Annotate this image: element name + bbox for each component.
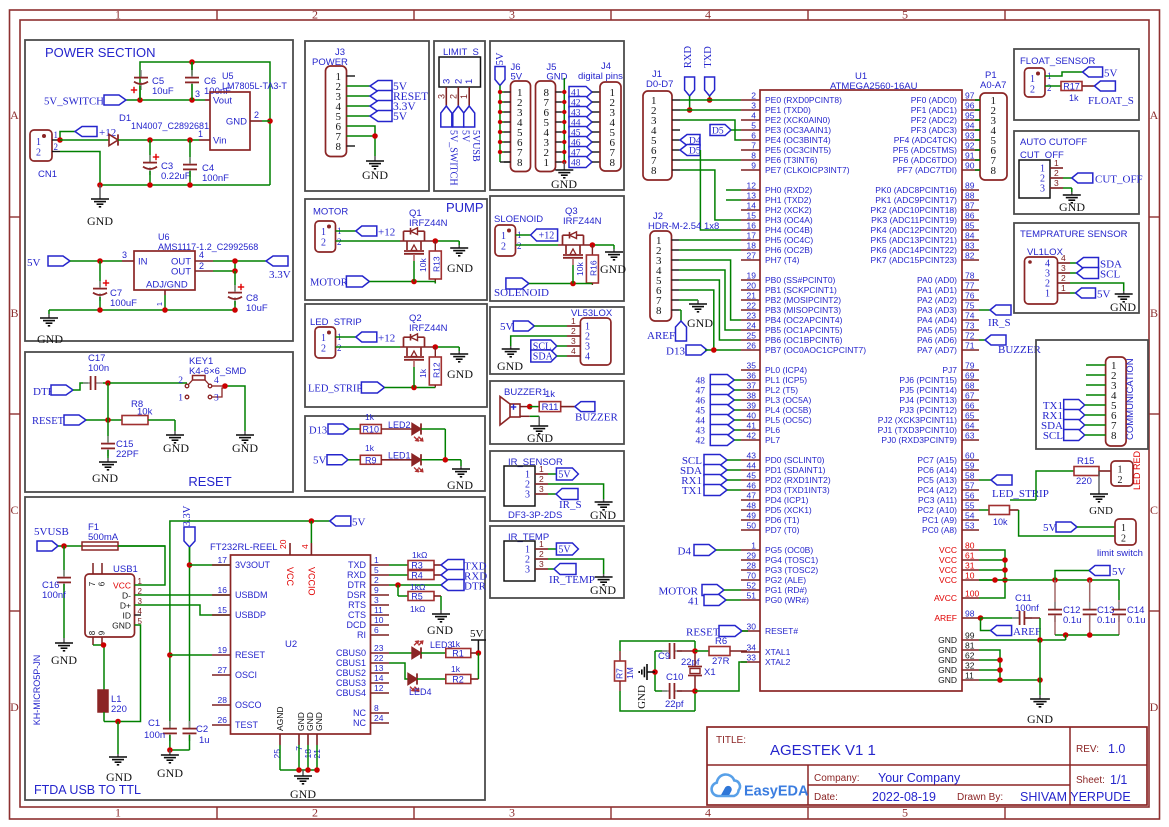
svg-text:C: C bbox=[10, 503, 18, 517]
svg-text:63: 63 bbox=[965, 431, 975, 441]
svg-text:4: 4 bbox=[585, 352, 590, 363]
svg-text:58: 58 bbox=[965, 471, 975, 481]
capacitor C15 22PF bbox=[101, 420, 139, 460]
svg-text:2: 2 bbox=[199, 261, 204, 271]
svg-text:22: 22 bbox=[374, 653, 384, 663]
svg-text:GND: GND bbox=[362, 168, 388, 182]
svg-text:GND: GND bbox=[1059, 200, 1085, 214]
node +12 flag bbox=[57, 127, 116, 143]
svg-text:Company:: Company: bbox=[814, 773, 860, 784]
svg-text:PH6 (OC2B): PH6 (OC2B) bbox=[765, 245, 813, 255]
svg-text:PJ1 (TXD3PCINT10): PJ1 (TXD3PCINT10) bbox=[878, 425, 958, 435]
svg-text:2: 2 bbox=[321, 238, 326, 249]
svg-text:24: 24 bbox=[374, 713, 384, 723]
svg-text:1: 1 bbox=[178, 394, 183, 404]
speaker BUZZER1 bbox=[500, 387, 555, 425]
svg-text:LED_STRIP: LED_STRIP bbox=[992, 488, 1049, 500]
node +12 flag PUMP bbox=[336, 226, 396, 239]
node D13 flag PB7 bbox=[666, 345, 741, 358]
svg-text:3: 3 bbox=[539, 484, 544, 494]
svg-text:GND: GND bbox=[938, 655, 957, 665]
svg-text:34: 34 bbox=[747, 643, 757, 653]
svg-text:PD1 (SDAINT1): PD1 (SDAINT1) bbox=[765, 465, 826, 475]
svg-text:PE2 (XCK0AIN0): PE2 (XCK0AIN0) bbox=[765, 115, 830, 125]
svg-text:48: 48 bbox=[696, 377, 706, 387]
ic U1 ATMEGA2560-16AU bbox=[741, 71, 979, 691]
section box BUZZER bbox=[490, 381, 624, 444]
svg-text:47: 47 bbox=[747, 491, 757, 501]
connector J2 HDR-M-2.54 1x8 bbox=[648, 211, 719, 321]
svg-text:1u: 1u bbox=[199, 735, 210, 746]
svg-text:NC: NC bbox=[353, 718, 366, 728]
wire VL53LOX pin2 ground bbox=[511, 336, 567, 346]
svg-text:PL4 (OC5B): PL4 (OC5B) bbox=[765, 405, 811, 415]
svg-text:1k: 1k bbox=[365, 443, 375, 453]
svg-text:28: 28 bbox=[747, 561, 757, 571]
svg-text:AREF: AREF bbox=[934, 613, 957, 623]
svg-text:69: 69 bbox=[965, 371, 975, 381]
svg-text:52: 52 bbox=[747, 581, 757, 591]
wire PH1 stub bbox=[726, 199, 741, 201]
svg-text:IRFZ44N: IRFZ44N bbox=[563, 216, 602, 227]
svg-text:GND: GND bbox=[290, 787, 316, 801]
svg-text:75: 75 bbox=[965, 301, 975, 311]
svg-text:POWER SECTION: POWER SECTION bbox=[45, 45, 156, 60]
svg-text:EasyEDA: EasyEDA bbox=[744, 784, 809, 800]
svg-text:SLOENOID: SLOENOID bbox=[494, 214, 543, 225]
svg-text:PA3 (AD3): PA3 (AD3) bbox=[917, 305, 957, 315]
svg-text:26: 26 bbox=[747, 341, 757, 351]
svg-text:55: 55 bbox=[965, 501, 975, 511]
node MOTOR flag PG1 bbox=[658, 585, 741, 598]
svg-text:ID: ID bbox=[123, 611, 132, 621]
ground GND R8 bbox=[163, 431, 189, 455]
svg-text:FTDA USB TO TTL: FTDA USB TO TTL bbox=[34, 783, 141, 797]
svg-text:PH2 (XCK2): PH2 (XCK2) bbox=[765, 205, 812, 215]
resistor 10k PC2 bbox=[979, 506, 1115, 537]
svg-text:1: 1 bbox=[464, 79, 475, 84]
svg-text:R17: R17 bbox=[1063, 82, 1080, 92]
svg-text:1k: 1k bbox=[451, 664, 461, 674]
svg-text:1k: 1k bbox=[418, 368, 428, 378]
node TX1 RX1 SDA SCL flags comm bbox=[1041, 400, 1106, 443]
svg-text:CTS: CTS bbox=[348, 610, 366, 620]
svg-text:R10: R10 bbox=[363, 425, 380, 435]
wire J2 pin3 to PB4 bbox=[679, 260, 741, 320]
node DTR flag bbox=[33, 383, 88, 398]
svg-text:86: 86 bbox=[965, 211, 975, 221]
svg-text:44: 44 bbox=[696, 417, 706, 427]
svg-text:14: 14 bbox=[374, 673, 384, 683]
svg-text:23: 23 bbox=[374, 643, 384, 653]
svg-text:PH0 (RXD2): PH0 (RXD2) bbox=[765, 185, 812, 195]
svg-text:PC0 (A8): PC0 (A8) bbox=[922, 525, 957, 535]
svg-text:5V: 5V bbox=[495, 52, 506, 65]
svg-text:4: 4 bbox=[571, 346, 576, 356]
svg-text:95: 95 bbox=[965, 111, 975, 121]
svg-text:IRFZ44N: IRFZ44N bbox=[409, 323, 448, 334]
svg-text:2: 2 bbox=[321, 344, 326, 355]
svg-text:GND: GND bbox=[447, 367, 473, 381]
node D5 flag J1 pin6 bbox=[680, 145, 701, 157]
svg-text:7: 7 bbox=[88, 581, 97, 586]
svg-text:4: 4 bbox=[199, 250, 204, 260]
svg-text:91: 91 bbox=[965, 151, 975, 161]
node 41 flag PG0 bbox=[688, 595, 741, 608]
wire DTR net bbox=[389, 582, 441, 596]
svg-text:5V: 5V bbox=[1097, 289, 1111, 301]
svg-text:47: 47 bbox=[696, 387, 706, 397]
svg-text:2: 2 bbox=[337, 237, 342, 247]
svg-text:PE4 (OC3BINT4): PE4 (OC3BINT4) bbox=[765, 135, 831, 145]
svg-text:0.1u: 0.1u bbox=[1097, 615, 1116, 626]
node 5VUSB flag bbox=[34, 526, 82, 551]
svg-text:1k: 1k bbox=[365, 412, 375, 422]
svg-text:U5: U5 bbox=[222, 71, 234, 81]
svg-text:B: B bbox=[10, 306, 18, 320]
svg-text:57: 57 bbox=[965, 481, 975, 491]
svg-text:0.22uF: 0.22uF bbox=[161, 171, 191, 182]
node CUT_OFF flag bbox=[1063, 173, 1143, 186]
svg-text:220: 220 bbox=[111, 704, 127, 715]
crystal X1 bbox=[688, 641, 716, 711]
svg-text:OSCI: OSCI bbox=[235, 670, 257, 680]
capacitor C9 22pf bbox=[655, 643, 700, 668]
svg-text:Your Company: Your Company bbox=[878, 771, 961, 785]
svg-text:PB6 (OC1BPCINT6): PB6 (OC1BPCINT6) bbox=[765, 335, 843, 345]
svg-text:X1: X1 bbox=[704, 667, 716, 678]
svg-text:PD0 (SCLINT0): PD0 (SCLINT0) bbox=[765, 455, 825, 465]
svg-text:4: 4 bbox=[300, 544, 310, 549]
node AREF flag bbox=[991, 626, 1042, 639]
svg-text:BUZZER: BUZZER bbox=[575, 412, 618, 424]
svg-text:PF2 (ADC2): PF2 (ADC2) bbox=[911, 115, 957, 125]
section box IR_TEMP bbox=[490, 526, 624, 598]
wire IR_SENSOR pin2 ground bbox=[548, 484, 604, 499]
switch KEY1 K4-6x6_SMD bbox=[110, 356, 246, 431]
svg-text:46: 46 bbox=[696, 397, 706, 407]
svg-text:8: 8 bbox=[751, 151, 756, 161]
svg-text:D0-D7: D0-D7 bbox=[646, 79, 673, 90]
svg-text:PC1 (A9): PC1 (A9) bbox=[922, 515, 957, 525]
svg-text:KH-MICRO5P-JN: KH-MICRO5P-JN bbox=[32, 655, 42, 726]
wire USB VCC to fuse bbox=[118, 546, 165, 585]
svg-text:5V: 5V bbox=[393, 111, 408, 123]
resistor R13 10k bbox=[418, 241, 442, 284]
wire USB D+ to U2 USBDP bbox=[135, 605, 231, 615]
capacitor C1 100n bbox=[144, 718, 177, 750]
svg-text:TEMPRATURE SENSOR: TEMPRATURE SENSOR bbox=[1020, 229, 1128, 240]
capacitor C13 0.1u bbox=[1083, 580, 1116, 635]
svg-text:GND: GND bbox=[226, 117, 247, 128]
svg-text:PC5 (A13): PC5 (A13) bbox=[917, 475, 957, 485]
svg-text:LED1: LED1 bbox=[388, 451, 411, 461]
svg-text:IN: IN bbox=[138, 257, 148, 268]
svg-text:54: 54 bbox=[965, 511, 975, 521]
svg-text:3: 3 bbox=[751, 101, 756, 111]
svg-text:28: 28 bbox=[218, 695, 228, 705]
svg-text:3: 3 bbox=[122, 250, 127, 260]
svg-text:GND: GND bbox=[51, 653, 77, 667]
svg-text:GND: GND bbox=[232, 441, 258, 455]
svg-text:CBUS2: CBUS2 bbox=[336, 668, 366, 678]
svg-text:1: 1 bbox=[751, 541, 756, 551]
svg-text:5: 5 bbox=[374, 565, 379, 575]
svg-text:PE5 (OC3CINT5): PE5 (OC3CINT5) bbox=[765, 145, 831, 155]
section box TEMPRATURE SENSOR bbox=[1014, 223, 1139, 313]
wire U6 out to 3.3V bbox=[195, 258, 266, 274]
svg-text:48: 48 bbox=[747, 501, 757, 511]
svg-text:2: 2 bbox=[571, 326, 576, 336]
svg-text:PB1 (SCKPCINT1): PB1 (SCKPCINT1) bbox=[765, 285, 837, 295]
svg-text:5V: 5V bbox=[352, 517, 366, 529]
ground GND R15 bbox=[1089, 490, 1113, 517]
ground GND C1 C2 bbox=[157, 750, 183, 780]
svg-text:12: 12 bbox=[374, 683, 384, 693]
svg-text:PF6 (ADC6TDO): PF6 (ADC6TDO) bbox=[893, 155, 957, 165]
connector IR temp bbox=[504, 539, 548, 581]
wire IR_TEMP pin2 ground bbox=[548, 559, 604, 574]
svg-text:2: 2 bbox=[1054, 168, 1059, 178]
svg-text:100nF: 100nF bbox=[202, 173, 229, 184]
wire J3 pins to flags bbox=[347, 86, 371, 116]
wire J1 pin1 PE0 bbox=[680, 99, 741, 101]
svg-text:100n: 100n bbox=[88, 363, 109, 374]
resistor R11 1k bbox=[539, 402, 575, 414]
svg-text:GND: GND bbox=[106, 770, 132, 784]
svg-text:8: 8 bbox=[374, 703, 379, 713]
svg-text:SDA: SDA bbox=[533, 352, 554, 363]
svg-text:1: 1 bbox=[155, 302, 164, 306]
connector float sensor bbox=[1025, 68, 1052, 97]
node IR_S flag PA3 bbox=[979, 305, 1011, 329]
svg-text:Drawn By:: Drawn By: bbox=[957, 792, 1003, 803]
svg-text:CBUS0: CBUS0 bbox=[336, 648, 366, 658]
svg-text:3: 3 bbox=[539, 559, 544, 569]
svg-text:PJ2 (XCK3PCINT11): PJ2 (XCK3PCINT11) bbox=[878, 415, 957, 425]
svg-text:ATMEGA2560-16AU: ATMEGA2560-16AU bbox=[830, 81, 918, 92]
svg-text:BUZZER: BUZZER bbox=[998, 344, 1041, 356]
capacitor C10 22pf bbox=[655, 672, 695, 710]
ground GND J5 bbox=[551, 162, 577, 191]
svg-text:DF3-3P-2DS: DF3-3P-2DS bbox=[508, 510, 562, 521]
svg-text:TITLE:: TITLE: bbox=[716, 735, 746, 746]
node SCL flag PD0 bbox=[682, 455, 741, 468]
svg-text:61: 61 bbox=[965, 551, 975, 561]
ground GND LEDs bbox=[447, 466, 473, 492]
svg-text:C1: C1 bbox=[148, 718, 160, 729]
ic U2 FT232RL-REEL bbox=[210, 539, 389, 758]
svg-text:10uF: 10uF bbox=[152, 86, 174, 97]
node TX1 flag PD3 bbox=[682, 485, 741, 498]
svg-text:33: 33 bbox=[747, 653, 757, 663]
wire U2 ground pins bbox=[280, 745, 320, 773]
svg-text:3: 3 bbox=[1040, 184, 1045, 195]
svg-text:PL1 (ICP5): PL1 (ICP5) bbox=[765, 375, 807, 385]
svg-text:PJ4 (PCINT13): PJ4 (PCINT13) bbox=[899, 395, 957, 405]
svg-text:78: 78 bbox=[965, 271, 975, 281]
wire J2 pin2 PH6 bbox=[679, 249, 741, 251]
svg-text:100nf: 100nf bbox=[1015, 603, 1039, 614]
svg-text:GND: GND bbox=[600, 262, 626, 276]
svg-text:NC: NC bbox=[353, 708, 366, 718]
svg-text:VCC: VCC bbox=[939, 575, 957, 585]
svg-text:RTS: RTS bbox=[348, 600, 366, 610]
svg-text:89: 89 bbox=[965, 181, 975, 191]
svg-text:11: 11 bbox=[374, 605, 383, 615]
svg-text:PF4 (ADC4TCK): PF4 (ADC4TCK) bbox=[894, 135, 957, 145]
svg-text:8: 8 bbox=[610, 157, 616, 169]
svg-text:97: 97 bbox=[965, 91, 975, 101]
svg-text:D1: D1 bbox=[119, 113, 131, 124]
svg-text:PE0 (RXD0PCINT8): PE0 (RXD0PCINT8) bbox=[765, 95, 842, 105]
svg-text:7: 7 bbox=[751, 141, 756, 151]
svg-text:PC3 (A11): PC3 (A11) bbox=[918, 495, 957, 505]
svg-text:RXD: RXD bbox=[683, 45, 694, 68]
svg-text:5: 5 bbox=[902, 806, 908, 820]
svg-text:6: 6 bbox=[374, 625, 379, 635]
svg-text:5V: 5V bbox=[1043, 522, 1057, 534]
section box LIMIT_S bbox=[434, 41, 485, 191]
wire J1 pin7 PE6 bbox=[680, 159, 741, 161]
svg-text:R6: R6 bbox=[715, 636, 727, 647]
svg-text:PL5 (OC5C): PL5 (OC5C) bbox=[765, 415, 812, 425]
svg-text:99: 99 bbox=[965, 631, 975, 641]
ground GND U2 bbox=[290, 770, 316, 801]
node SCL flag temp bbox=[1070, 268, 1120, 281]
svg-text:70: 70 bbox=[747, 571, 757, 581]
svg-text:94: 94 bbox=[965, 121, 975, 131]
node RESET flag bbox=[32, 415, 122, 427]
svg-text:43: 43 bbox=[747, 451, 757, 461]
node flags 5V_SWITCH 5V 5VUSB bbox=[441, 106, 481, 186]
wire 5V rail over U2 bbox=[167, 518, 330, 728]
svg-text:79: 79 bbox=[965, 361, 975, 371]
svg-text:1: 1 bbox=[459, 94, 469, 99]
svg-text:PA5 (AD5): PA5 (AD5) bbox=[917, 325, 957, 335]
svg-text:PD7 (T0): PD7 (T0) bbox=[765, 525, 800, 535]
svg-text:GND: GND bbox=[37, 332, 63, 346]
node 5V power stub LED bbox=[470, 628, 486, 656]
wire VCCIO drop bbox=[310, 521, 312, 543]
node MOTOR flag bbox=[310, 261, 435, 289]
svg-text:1: 1 bbox=[1045, 289, 1050, 300]
svg-text:3: 3 bbox=[509, 8, 515, 22]
connector J3 bbox=[326, 66, 356, 157]
capacitor C12 0.1u bbox=[1048, 580, 1082, 635]
led LED3 bbox=[389, 640, 453, 659]
svg-text:GND: GND bbox=[1089, 505, 1113, 517]
svg-text:+12: +12 bbox=[539, 231, 555, 242]
svg-text:12: 12 bbox=[747, 181, 757, 191]
svg-text:10: 10 bbox=[965, 571, 975, 581]
svg-text:PC6 (A14): PC6 (A14) bbox=[917, 465, 957, 475]
svg-text:100n: 100n bbox=[144, 730, 165, 741]
svg-text:LM7805L-TA3-T: LM7805L-TA3-T bbox=[222, 81, 287, 91]
svg-text:PK4 (ADC12PCINT20): PK4 (ADC12PCINT20) bbox=[871, 225, 958, 235]
resistor R7 1M bbox=[615, 641, 696, 711]
node 5V_SWITCH flag bbox=[44, 95, 126, 108]
svg-text:PH4 (OC4B): PH4 (OC4B) bbox=[765, 225, 813, 235]
svg-text:2: 2 bbox=[312, 8, 318, 22]
svg-text:RESET#: RESET# bbox=[765, 626, 798, 636]
svg-text:21: 21 bbox=[747, 291, 757, 301]
wire J2 pin5 to PB6 bbox=[679, 280, 741, 340]
wire CN1 pin2 to ground rail bbox=[60, 152, 270, 188]
svg-text:27R: 27R bbox=[712, 656, 730, 667]
svg-text:R7: R7 bbox=[615, 668, 625, 679]
led LED1 bbox=[388, 451, 461, 472]
svg-text:1: 1 bbox=[571, 316, 576, 326]
svg-text:3: 3 bbox=[436, 94, 446, 99]
svg-text:AREF: AREF bbox=[1013, 626, 1041, 638]
svg-text:3: 3 bbox=[441, 79, 452, 84]
svg-text:2: 2 bbox=[337, 343, 342, 353]
svg-text:2: 2 bbox=[501, 242, 506, 253]
capacitor C14 0.1u bbox=[1112, 600, 1146, 635]
svg-text:42: 42 bbox=[747, 431, 757, 441]
svg-text:AREF: AREF bbox=[647, 330, 675, 342]
svg-text:85: 85 bbox=[965, 221, 975, 231]
node 5V flag limit switch bbox=[1043, 522, 1115, 534]
svg-text:8: 8 bbox=[88, 630, 97, 635]
svg-text:5VUSB: 5VUSB bbox=[34, 526, 69, 538]
svg-text:31: 31 bbox=[965, 561, 975, 571]
svg-text:15: 15 bbox=[747, 211, 757, 221]
svg-text:PH3 (OC4A): PH3 (OC4A) bbox=[765, 215, 813, 225]
title block bbox=[707, 727, 1147, 805]
svg-text:GND: GND bbox=[938, 675, 957, 685]
svg-text:Sheet:: Sheet: bbox=[1076, 775, 1105, 786]
wire GND bus U1 bbox=[979, 637, 1066, 695]
wire cut off pin3 ground bbox=[1063, 188, 1072, 192]
svg-text:5V: 5V bbox=[500, 321, 514, 333]
svg-text:GND: GND bbox=[92, 471, 118, 485]
section box SLOENOID bbox=[490, 196, 624, 301]
svg-text:68: 68 bbox=[965, 381, 975, 391]
svg-text:PD5 (XCK1): PD5 (XCK1) bbox=[765, 505, 812, 515]
node +12 flag SLOENOID bbox=[516, 229, 558, 242]
svg-text:PG2 (ALE): PG2 (ALE) bbox=[765, 575, 806, 585]
node 5V flag IR_TEMP bbox=[548, 543, 578, 556]
svg-text:5VUSB: 5VUSB bbox=[470, 130, 481, 162]
svg-text:10uF: 10uF bbox=[246, 303, 268, 314]
svg-text:59: 59 bbox=[965, 461, 975, 471]
svg-text:1kΩ: 1kΩ bbox=[410, 582, 425, 592]
svg-text:2: 2 bbox=[453, 79, 464, 84]
svg-text:USBDM: USBDM bbox=[235, 590, 268, 600]
svg-text:3: 3 bbox=[509, 806, 515, 820]
svg-text:220: 220 bbox=[1076, 476, 1092, 487]
svg-text:1kΩ: 1kΩ bbox=[412, 550, 427, 560]
ground GND BUZZER1 bbox=[527, 416, 553, 445]
node 5V flag temp bbox=[1070, 288, 1111, 301]
section box PUMP bbox=[305, 199, 487, 300]
wire USB shield join bbox=[93, 642, 106, 690]
connector LED RED bbox=[1111, 450, 1142, 490]
svg-text:GND: GND bbox=[527, 431, 553, 445]
svg-text:GND: GND bbox=[1110, 300, 1136, 314]
svg-text:1: 1 bbox=[36, 137, 41, 148]
svg-text:1: 1 bbox=[539, 539, 544, 549]
svg-text:0.1u: 0.1u bbox=[1127, 615, 1146, 626]
svg-text:1: 1 bbox=[1030, 74, 1035, 85]
svg-text:23: 23 bbox=[747, 311, 757, 321]
resistor R3 1k bbox=[389, 550, 441, 571]
svg-text:A: A bbox=[10, 108, 19, 122]
svg-text:GND: GND bbox=[938, 635, 957, 645]
svg-text:88: 88 bbox=[965, 191, 975, 201]
